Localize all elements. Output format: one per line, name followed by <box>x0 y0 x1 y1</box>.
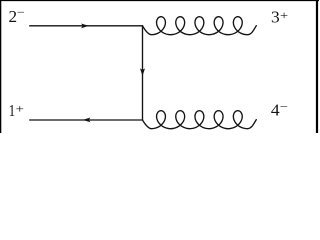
frame top edge <box>0 0 319 2</box>
wire fermion line top (particle 2 -> vertex) <box>30 25 143 27</box>
gluon line 4 (bottom coil) <box>143 111 257 129</box>
svg-text:2: 2 <box>8 7 17 26</box>
svg-text:−: − <box>17 7 25 19</box>
svg-text:3: 3 <box>271 7 280 26</box>
frame right edge <box>316 0 318 133</box>
svg-text:+: + <box>16 104 24 116</box>
arrow right on top fermion line <box>81 24 89 29</box>
svg-text:4: 4 <box>271 101 280 120</box>
svg-text:+: + <box>280 10 288 22</box>
arrow down on vertical propagator <box>140 68 145 76</box>
frame left edge <box>0 0 2 133</box>
svg-text:1: 1 <box>9 101 16 120</box>
arrow left on bottom fermion line <box>83 118 91 123</box>
gluon line 3 (top coil) <box>143 17 257 35</box>
svg-text:−: − <box>280 101 288 113</box>
wire fermion line bottom (vertex -> particle 1) <box>30 119 143 121</box>
wire fermion propagator vertical <box>142 26 144 120</box>
